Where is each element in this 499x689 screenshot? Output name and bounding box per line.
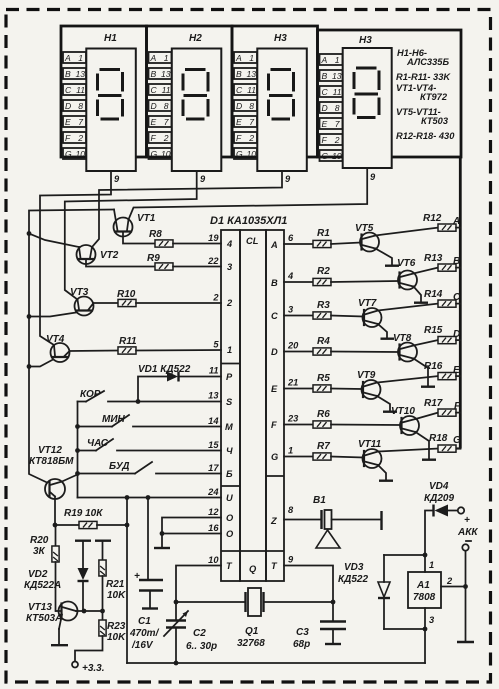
resistor R8	[155, 240, 173, 247]
svg-text:B: B	[322, 71, 328, 81]
diode VD4 КД209	[424, 481, 458, 555]
svg-text:11: 11	[209, 366, 219, 376]
switch common bus	[77, 402, 79, 498]
svg-text:Ч: Ч	[226, 446, 233, 456]
wire: H2 pin 9 to VT3 collector line	[65, 171, 197, 300]
svg-text:2: 2	[163, 133, 169, 143]
svg-text:R8: R8	[149, 229, 162, 240]
svg-text:R1: R1	[317, 228, 330, 239]
svg-text:F: F	[271, 420, 277, 430]
wire pin 24 (U row)	[78, 497, 222, 499]
svg-text:8: 8	[288, 505, 294, 515]
svg-text:O: O	[226, 513, 234, 523]
svg-text:12: 12	[208, 507, 219, 517]
svg-text:R16: R16	[424, 361, 443, 372]
svg-text:D1 КА1035ХЛ1: D1 КА1035ХЛ1	[210, 215, 287, 227]
svg-text:11: 11	[162, 85, 171, 95]
svg-text:БУД: БУД	[109, 461, 129, 472]
transistor VT3	[29, 287, 118, 317]
svg-text:20: 20	[287, 341, 299, 351]
svg-text:D: D	[453, 329, 460, 340]
wire: H1 pin 9 to VT4 collector line	[40, 171, 111, 345]
resistor R23 10K	[72, 611, 126, 674]
svg-text:VT7: VT7	[358, 298, 377, 309]
svg-text:B: B	[65, 69, 71, 79]
svg-text:D: D	[65, 101, 71, 111]
bottom rail	[127, 662, 425, 664]
svg-text:+: +	[464, 515, 470, 526]
svg-text:U: U	[226, 493, 233, 503]
capacitor C3 68p	[293, 602, 346, 650]
svg-text:АКК: АКК	[457, 527, 478, 538]
svg-text:ЧАС: ЧАС	[87, 438, 109, 449]
regulator A1 7808	[408, 553, 466, 663]
svg-text:VT4: VT4	[46, 334, 65, 345]
resistor R21 10K	[95, 541, 126, 611]
svg-text:8: 8	[335, 103, 340, 113]
svg-text:D: D	[322, 103, 328, 113]
wire pin 10 to crystal line	[176, 566, 221, 603]
svg-text:B1: B1	[313, 495, 326, 506]
svg-text:F: F	[65, 133, 71, 143]
svg-text:КТ818БМ: КТ818БМ	[29, 456, 74, 467]
svg-text:5: 5	[213, 340, 219, 350]
svg-text:19: 19	[208, 233, 219, 243]
svg-text:E: E	[236, 117, 242, 127]
row E: R5 VT9 R16	[284, 361, 460, 412]
svg-text:КОР: КОР	[80, 389, 101, 400]
svg-text:470m/: 470m/	[129, 628, 160, 639]
svg-text:6: 6	[288, 233, 294, 243]
svg-text:22: 22	[207, 256, 219, 266]
svg-text:M: M	[225, 422, 233, 432]
svg-text:R4: R4	[317, 336, 330, 347]
svg-text:R5: R5	[317, 373, 330, 384]
svg-text:B: B	[236, 69, 242, 79]
svg-text:13: 13	[208, 391, 219, 401]
diode VD3 КД522	[338, 555, 425, 629]
svg-text:D: D	[271, 347, 278, 357]
buzzer B1 (pin 8 / Z)	[284, 495, 382, 548]
switch МИН (pin 14)	[78, 414, 222, 427]
display H1	[61, 26, 147, 171]
svg-text:P: P	[226, 372, 233, 382]
svg-text:VD3: VD3	[344, 562, 364, 573]
svg-text:VT6: VT6	[397, 258, 416, 269]
resistor R11	[118, 347, 136, 354]
svg-text:VD2: VD2	[28, 569, 48, 580]
svg-text:R1-R11- 33K: R1-R11- 33K	[396, 72, 451, 82]
svg-text:B: B	[151, 69, 157, 79]
svg-text:R23: R23	[107, 621, 126, 632]
svg-text:15: 15	[208, 440, 219, 450]
svg-text:A: A	[452, 216, 460, 227]
svg-text:E: E	[65, 117, 71, 127]
svg-text:A: A	[321, 55, 328, 65]
svg-text:11: 11	[76, 85, 85, 95]
resistor R20 3К	[30, 525, 59, 611]
svg-text:G: G	[151, 149, 158, 159]
svg-text:13: 13	[332, 71, 342, 81]
svg-text:2: 2	[334, 135, 340, 145]
svg-text:E: E	[271, 384, 278, 394]
svg-text:R12-R18- 430: R12-R18- 430	[396, 131, 455, 141]
svg-text:G: G	[271, 452, 278, 462]
svg-text:R11: R11	[119, 336, 137, 347]
svg-text:R15: R15	[424, 325, 443, 336]
svg-text:E: E	[322, 119, 328, 129]
svg-text:3К: 3К	[33, 546, 46, 557]
svg-text:2: 2	[77, 133, 83, 143]
transistor VT1	[114, 210, 156, 244]
svg-text:VT5: VT5	[355, 223, 374, 234]
svg-text:13: 13	[246, 69, 256, 79]
svg-text:C2: C2	[193, 628, 206, 639]
wire: H3 pin 9 to VT2 collector line	[92, 171, 282, 247]
svg-text:R14: R14	[424, 289, 443, 300]
svg-text:F: F	[151, 133, 157, 143]
svg-text:VD4: VD4	[429, 481, 449, 492]
svg-text:13: 13	[75, 69, 85, 79]
svg-text:21: 21	[287, 378, 298, 388]
svg-text:23: 23	[287, 414, 299, 424]
diode VD1 КД522 (pin 11)	[138, 364, 221, 402]
svg-text:2: 2	[446, 576, 453, 586]
svg-text:B: B	[271, 278, 278, 288]
svg-text:8: 8	[78, 101, 83, 111]
svg-text:F: F	[236, 133, 242, 143]
parts list notes	[396, 48, 455, 141]
svg-text:КД522: КД522	[338, 574, 368, 585]
svg-text:1: 1	[429, 560, 434, 570]
svg-text:G: G	[453, 435, 461, 446]
svg-text:A: A	[64, 53, 71, 63]
svg-text:H3: H3	[359, 35, 372, 46]
svg-text:E: E	[151, 117, 157, 127]
svg-text:R3: R3	[317, 300, 330, 311]
IC pin numbers left	[207, 233, 219, 565]
svg-text:R6: R6	[317, 409, 330, 420]
switch БУД (pin 17)	[78, 461, 222, 474]
svg-text:C: C	[322, 87, 329, 97]
svg-text:10: 10	[208, 555, 219, 565]
resistor R19 10K	[53, 508, 130, 529]
svg-text:E: E	[453, 365, 460, 376]
svg-text:R9: R9	[147, 253, 160, 264]
svg-text:1: 1	[335, 55, 340, 65]
svg-text:C: C	[453, 292, 461, 303]
row A: R1 VT5 R12	[284, 213, 460, 266]
svg-text:R18: R18	[429, 433, 448, 444]
svg-text:C: C	[236, 85, 243, 95]
svg-text:11: 11	[247, 85, 256, 95]
segment bus (right vertical)	[459, 157, 462, 449]
svg-text:68p: 68p	[293, 639, 310, 650]
display H4 (labelled H3) with right edge forming segment bus	[318, 30, 462, 168]
svg-text:R7: R7	[317, 441, 330, 452]
svg-text:Q1: Q1	[245, 626, 259, 637]
transistor VT13 КТ503А	[26, 602, 105, 646]
svg-text:/16V: /16V	[131, 640, 154, 651]
display H2	[147, 26, 233, 171]
svg-text:13: 13	[161, 69, 171, 79]
wires pins 12,16 (O,O)	[154, 518, 221, 549]
trimmer capacitor C2 6..30p	[164, 602, 217, 663]
svg-text:VT3: VT3	[70, 287, 89, 298]
svg-text:2: 2	[212, 293, 219, 303]
svg-text:VT12: VT12	[38, 445, 62, 456]
svg-text:1: 1	[249, 53, 254, 63]
vertical from U row to R19 and bottom rail	[126, 498, 128, 664]
svg-text:9: 9	[285, 174, 291, 184]
svg-text:G: G	[65, 149, 72, 159]
svg-text:D: D	[236, 101, 242, 111]
svg-text:A1: A1	[416, 580, 430, 591]
svg-text:VD1 КД522: VD1 КД522	[138, 364, 191, 375]
svg-text:G: G	[322, 151, 329, 161]
resistor R9	[155, 263, 173, 270]
svg-text:H2: H2	[189, 33, 202, 44]
svg-text:4: 4	[226, 239, 233, 249]
svg-text:2: 2	[226, 298, 233, 308]
diode VD2 КД522А	[24, 541, 91, 611]
svg-text:Б: Б	[226, 469, 233, 479]
row D: R4 VT8 R15	[284, 325, 460, 387]
svg-text:10: 10	[75, 149, 85, 159]
svg-text:A: A	[235, 53, 242, 63]
svg-text:9: 9	[114, 174, 120, 184]
svg-text:32768: 32768	[237, 638, 265, 649]
svg-text:+: +	[134, 571, 140, 582]
svg-text:8: 8	[164, 101, 169, 111]
svg-text:14: 14	[208, 416, 219, 426]
row F: R6 VT10 R17	[284, 398, 461, 460]
svg-text:CL: CL	[246, 236, 259, 246]
svg-text:9: 9	[370, 172, 376, 182]
svg-text:3: 3	[429, 615, 435, 625]
IC pin numbers right	[287, 233, 299, 565]
svg-text:+3.3.: +3.3.	[82, 663, 105, 674]
svg-text:3: 3	[227, 262, 233, 272]
svg-text:17: 17	[208, 463, 219, 473]
svg-text:A: A	[150, 53, 157, 63]
svg-text:16: 16	[208, 523, 219, 533]
svg-text:10K: 10K	[107, 632, 126, 643]
svg-text:VT9: VT9	[357, 370, 376, 381]
svg-text:МИН: МИН	[102, 414, 126, 425]
svg-text:D: D	[151, 101, 157, 111]
svg-text:1: 1	[288, 446, 293, 456]
svg-text:O: O	[226, 529, 234, 539]
battery terminal АКК	[457, 507, 478, 642]
svg-text:F: F	[454, 401, 461, 412]
svg-text:11: 11	[333, 87, 342, 97]
svg-text:VT13: VT13	[28, 602, 52, 613]
switch КОР (pin 13)	[78, 389, 222, 404]
svg-text:R20: R20	[30, 535, 49, 546]
svg-text:G: G	[236, 149, 243, 159]
svg-text:2: 2	[248, 133, 254, 143]
row B: R2 VT6 R13	[284, 253, 460, 303]
svg-text:10K: 10K	[107, 590, 126, 601]
svg-text:C: C	[65, 85, 72, 95]
svg-text:АЛС335Б: АЛС335Б	[406, 57, 449, 67]
crystal Q1 32768	[237, 588, 265, 649]
svg-text:КТ503А: КТ503А	[26, 613, 62, 624]
svg-text:R10: R10	[117, 289, 136, 300]
svg-text:4: 4	[287, 271, 294, 281]
svg-text:C1: C1	[138, 616, 151, 627]
svg-text:R21: R21	[106, 579, 125, 590]
capacitor C1 470m/16V	[129, 498, 163, 652]
transistor VT12 КТ818БМ	[29, 445, 78, 525]
svg-text:9: 9	[288, 555, 294, 565]
svg-text:R17: R17	[424, 398, 443, 409]
svg-text:КД209: КД209	[424, 493, 454, 504]
svg-text:6.. 30p: 6.. 30p	[186, 641, 217, 652]
svg-text:B: B	[453, 256, 460, 267]
svg-text:КТ972: КТ972	[420, 92, 448, 102]
svg-text:9: 9	[200, 174, 206, 184]
svg-text:10: 10	[161, 149, 171, 159]
svg-text:Q: Q	[249, 564, 257, 574]
svg-text:C: C	[271, 311, 278, 321]
svg-text:C: C	[151, 85, 158, 95]
svg-text:R2: R2	[317, 266, 330, 277]
row G: R7 VT11 R18	[284, 433, 461, 481]
svg-text:10: 10	[332, 151, 342, 161]
svg-text:A: A	[270, 240, 278, 250]
svg-text:VT10: VT10	[391, 406, 415, 417]
svg-text:F: F	[322, 135, 328, 145]
common emitter rail (VT1-VT4 to VT12)	[29, 210, 114, 483]
svg-text:7808: 7808	[413, 592, 436, 603]
svg-text:H1: H1	[104, 33, 117, 44]
svg-text:10: 10	[246, 149, 256, 159]
row C: R3 VT7 R14	[284, 289, 461, 339]
svg-text:КД522А: КД522А	[24, 580, 61, 591]
svg-text:8: 8	[249, 101, 254, 111]
svg-text:3: 3	[288, 305, 294, 315]
wire pin 9 to crystal line	[284, 566, 333, 603]
svg-text:24: 24	[207, 487, 219, 497]
svg-text:C3: C3	[296, 627, 309, 638]
transistor VT2	[29, 234, 155, 267]
svg-text:1: 1	[227, 345, 232, 355]
crystal line	[176, 601, 246, 603]
resistor R10	[118, 299, 136, 306]
svg-text:R19 10К: R19 10К	[64, 508, 103, 519]
transistor VT4	[29, 334, 118, 367]
svg-text:R12: R12	[423, 213, 442, 224]
svg-text:H3: H3	[274, 33, 287, 44]
svg-text:R13: R13	[424, 253, 443, 264]
display H3	[232, 26, 318, 171]
svg-text:VT11: VT11	[358, 439, 382, 450]
svg-text:КТ503: КТ503	[421, 116, 449, 126]
svg-text:S: S	[226, 397, 233, 407]
svg-text:1: 1	[78, 53, 83, 63]
svg-text:Z: Z	[270, 516, 277, 526]
svg-text:VT1: VT1	[137, 213, 156, 224]
wire: H4 pin 9 to VT1 collector	[129, 168, 368, 220]
svg-text:VT8: VT8	[393, 333, 412, 344]
svg-text:1: 1	[164, 53, 169, 63]
switch ЧАС (pin 15)	[78, 438, 222, 451]
svg-text:VT2: VT2	[100, 250, 119, 261]
